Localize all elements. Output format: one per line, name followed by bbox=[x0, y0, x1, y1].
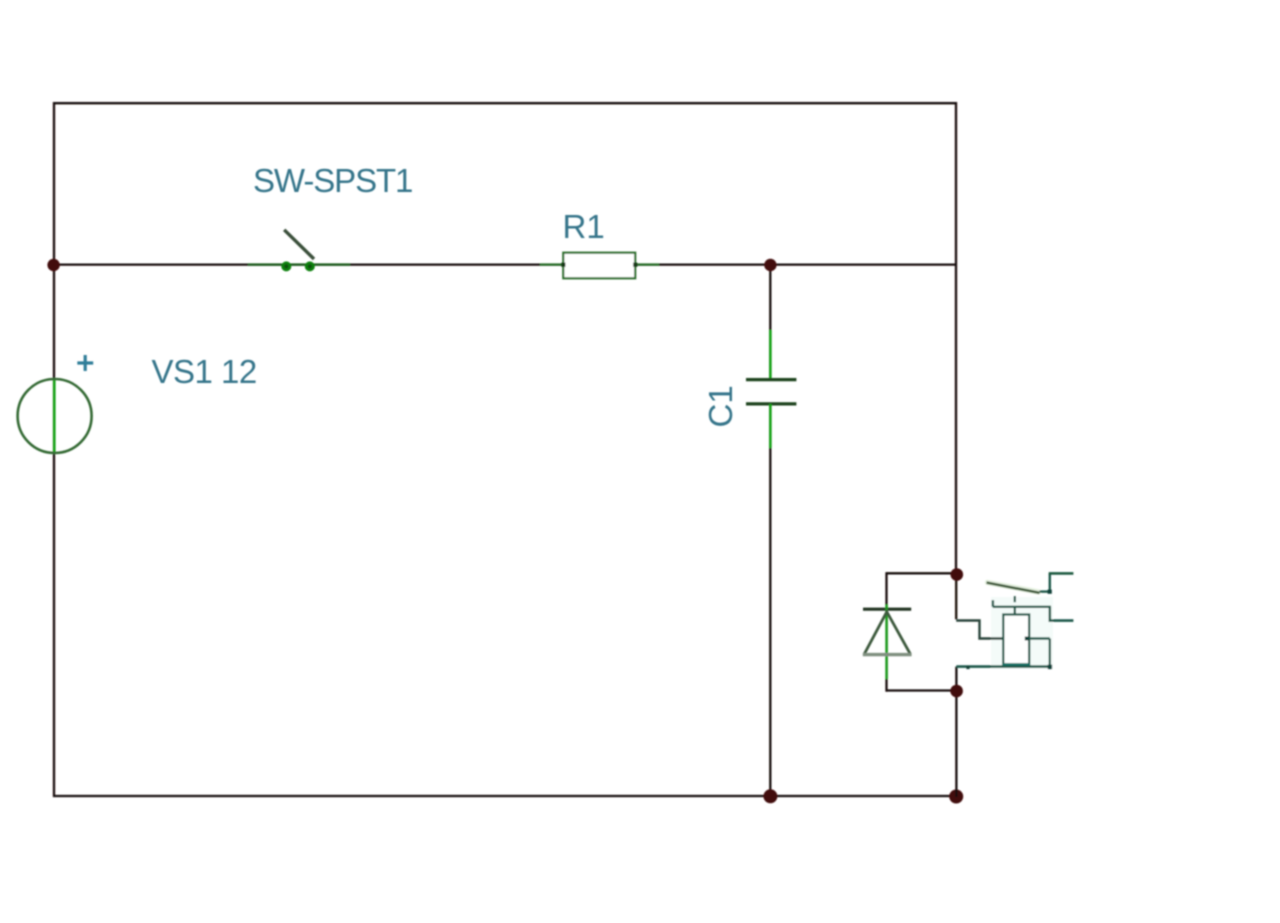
voltage source VS1 plus sign bbox=[77, 355, 93, 371]
relay coil right lead bbox=[1029, 639, 1050, 667]
wire left side lower bbox=[53, 265, 55, 797]
svg-text:SW-SPST1: SW-SPST1 bbox=[253, 162, 412, 199]
wire relay feed step bbox=[956, 621, 1003, 639]
node junction dot left middle bbox=[47, 259, 59, 271]
relay light background wash bbox=[991, 597, 1053, 669]
relay pad on coil right bbox=[1025, 637, 1029, 641]
switch SW-SPST1 right contact dot bbox=[305, 261, 315, 271]
wire middle horizontal bbox=[54, 263, 956, 265]
relay bottom left tick pad bbox=[966, 666, 969, 669]
switch SW-SPST1 left contact dot bbox=[281, 261, 291, 271]
wire diode branch vertical lower bbox=[885, 679, 887, 692]
resistor R1 pin pad right bbox=[633, 263, 637, 267]
wire top side bbox=[54, 102, 956, 104]
relay center dash bbox=[1014, 596, 1016, 602]
wire bottom side bbox=[53, 795, 957, 797]
wire right side bbox=[955, 102, 957, 575]
relay step down right bbox=[1050, 607, 1074, 621]
relay middle bar bbox=[993, 606, 1051, 608]
svg-text:R1: R1 bbox=[563, 208, 605, 245]
relay pad bottom right bbox=[1048, 665, 1052, 669]
node junction dot right bottom bbox=[949, 790, 963, 804]
resistor R1 pin pad left bbox=[561, 263, 565, 267]
resistor R1 green lead left bbox=[540, 263, 563, 265]
node junction dot diode bottom bbox=[950, 685, 963, 698]
wire relay feed from node bbox=[955, 575, 957, 620]
diode triangle sides bbox=[864, 612, 910, 654]
relay middle bar left tick bbox=[992, 600, 994, 607]
wire diode branch vertical upper bbox=[885, 572, 887, 605]
relay center drop to coil bbox=[1014, 607, 1016, 615]
relay common wire at blade end bbox=[1040, 590, 1051, 592]
capacitor C1 bottom plate bbox=[746, 402, 796, 405]
wire diode branch top bbox=[887, 572, 953, 574]
resistor R1 body bbox=[563, 253, 635, 279]
wire capacitor branch lower bbox=[769, 405, 771, 797]
voltage source VS1 circle bbox=[18, 379, 92, 453]
relay coil body bbox=[1003, 615, 1029, 665]
switch SW-SPST1 green wire segment bbox=[248, 263, 350, 265]
switch SW-SPST1 blade bbox=[284, 230, 314, 259]
svg-text:VS1 12: VS1 12 bbox=[152, 353, 257, 390]
relay blade bbox=[987, 583, 1040, 593]
node junction dot capacitor top bbox=[764, 259, 776, 271]
voltage source VS1 green lead through circle bbox=[53, 378, 56, 454]
wire diode branch bottom bbox=[887, 689, 953, 691]
diode green lead bbox=[885, 605, 888, 680]
capacitor C1 green lead upper bbox=[769, 330, 772, 380]
svg-text:C1: C1 bbox=[702, 385, 739, 427]
relay common vertical bbox=[1049, 573, 1051, 592]
capacitor C1 top plate bbox=[746, 378, 796, 381]
wire left side upper bbox=[53, 102, 55, 266]
diode triangle base bbox=[863, 653, 912, 656]
resistor R1 green lead right bbox=[635, 263, 659, 265]
relay bottom wire bbox=[956, 665, 1050, 668]
wire capacitor branch upper bbox=[769, 265, 771, 379]
relay coil bottom thick edge bbox=[1002, 663, 1030, 667]
node junction dot capacitor bottom bbox=[763, 789, 777, 803]
relay top terminal bbox=[1049, 572, 1074, 575]
diode cathode bar bbox=[863, 608, 911, 611]
relay pad at blade end bbox=[1048, 590, 1052, 594]
relay blade halo bbox=[988, 582, 1039, 592]
wire right side lower bbox=[955, 667, 957, 797]
capacitor C1 green lead lower bbox=[769, 404, 772, 448]
node junction dot diode top bbox=[951, 568, 964, 581]
